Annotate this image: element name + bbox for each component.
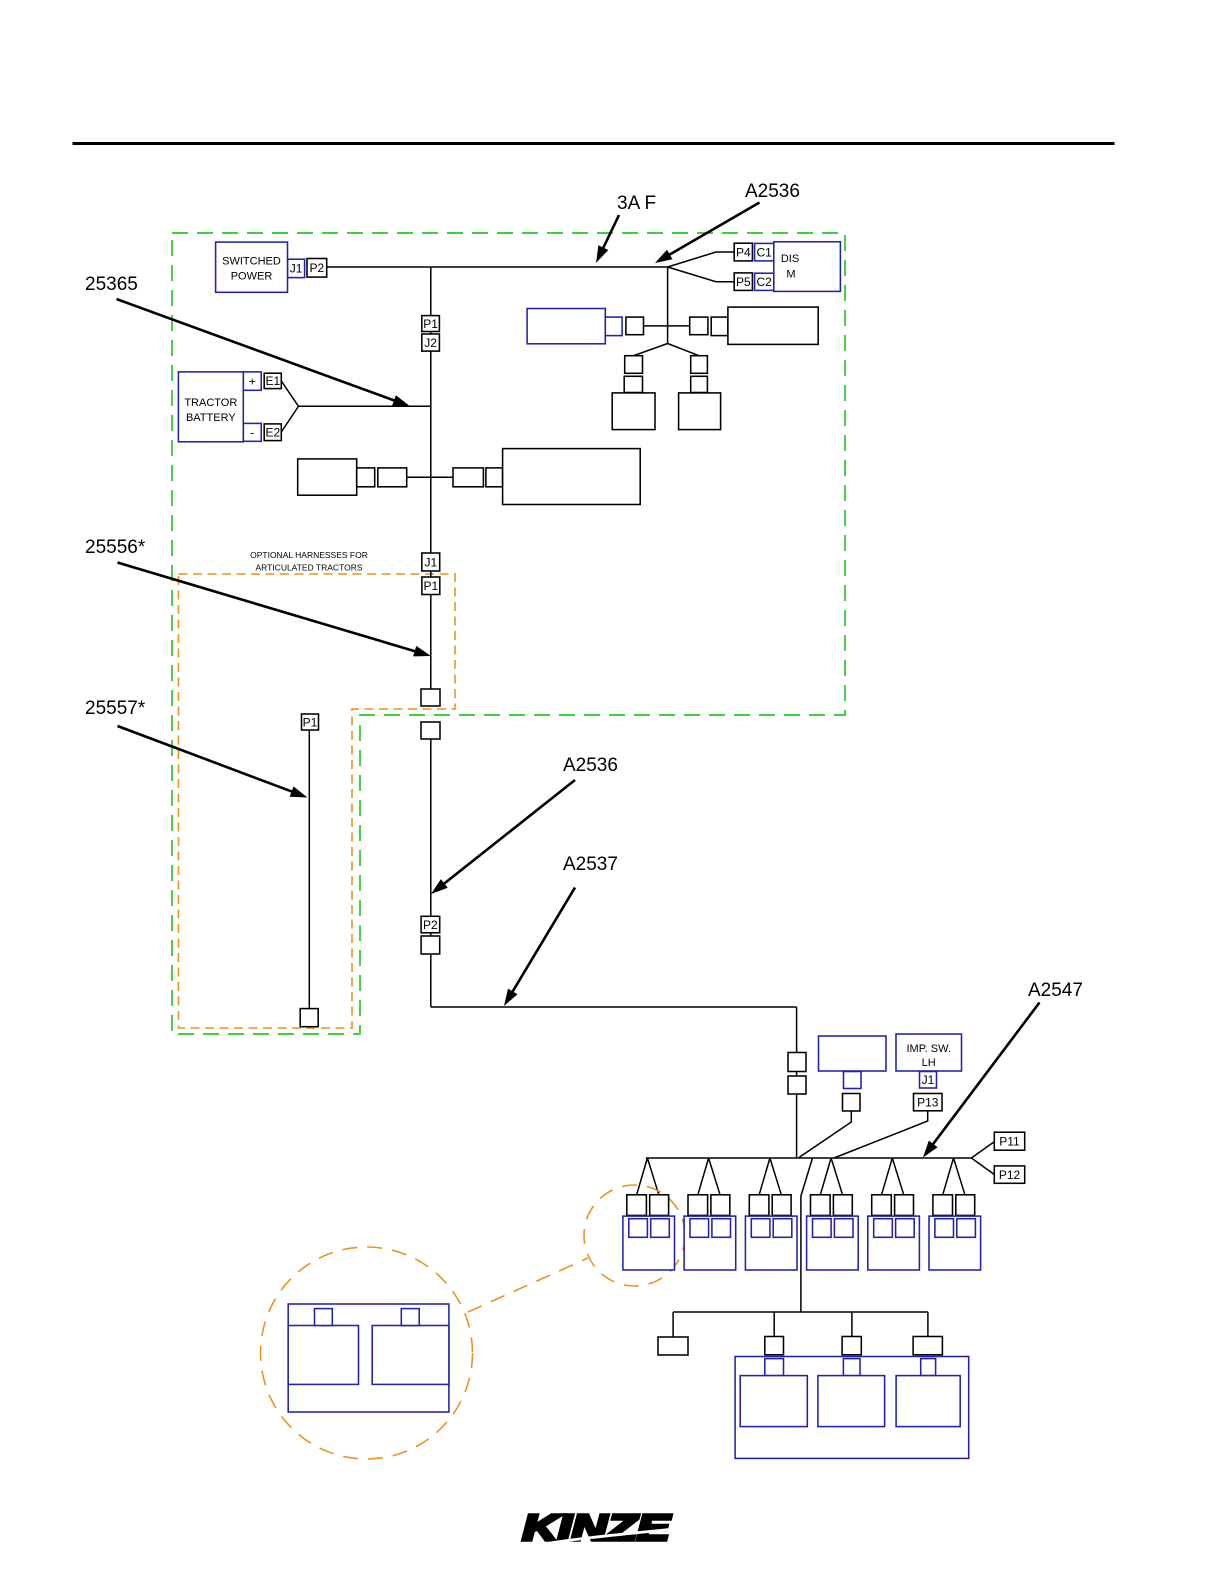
- svg-text:25365: 25365: [85, 274, 138, 295]
- svg-text:P2: P2: [310, 261, 325, 275]
- svg-text:C1: C1: [757, 245, 773, 259]
- svg-text:ARTICULATED TRACTORS: ARTICULATED TRACTORS: [255, 563, 362, 573]
- svg-text:A2536: A2536: [745, 181, 800, 202]
- svg-text:+: +: [249, 374, 256, 388]
- svg-text:3A F: 3A F: [617, 193, 656, 214]
- svg-text:J2: J2: [424, 336, 437, 350]
- svg-text:BATTERY: BATTERY: [186, 412, 236, 424]
- svg-text:P1: P1: [303, 715, 318, 729]
- svg-text:A2537: A2537: [563, 854, 618, 875]
- svg-text:25556*: 25556*: [85, 537, 146, 558]
- svg-text:SWITCHED: SWITCHED: [222, 256, 281, 268]
- svg-text:J1: J1: [290, 262, 303, 276]
- svg-text:TRACTOR: TRACTOR: [184, 397, 237, 409]
- svg-text:P5: P5: [736, 275, 751, 289]
- svg-text:A2536: A2536: [563, 755, 618, 776]
- svg-text:P2: P2: [423, 918, 438, 932]
- svg-text:J1: J1: [424, 555, 437, 569]
- svg-text:P12: P12: [999, 1168, 1021, 1182]
- svg-text:J1: J1: [922, 1073, 935, 1087]
- svg-text:KINZE: KINZE: [523, 1507, 671, 1548]
- svg-text:P13: P13: [917, 1095, 939, 1109]
- svg-text:LH: LH: [922, 1057, 936, 1069]
- svg-text:P11: P11: [999, 1135, 1020, 1149]
- svg-text:M: M: [786, 269, 795, 281]
- svg-text:IMP. SW.: IMP. SW.: [906, 1043, 950, 1055]
- svg-text:P1: P1: [424, 579, 439, 593]
- svg-text:POWER: POWER: [231, 271, 273, 283]
- svg-text:E2: E2: [265, 426, 280, 440]
- svg-text:25557*: 25557*: [85, 698, 146, 719]
- svg-text:-: -: [250, 426, 254, 440]
- svg-text:E1: E1: [265, 374, 280, 388]
- svg-text:A2547: A2547: [1028, 980, 1083, 1001]
- svg-text:OPTIONAL HARNESSES FOR: OPTIONAL HARNESSES FOR: [250, 550, 368, 560]
- svg-text:C2: C2: [757, 275, 773, 289]
- svg-text:DIS: DIS: [781, 253, 799, 265]
- svg-text:P4: P4: [736, 245, 751, 259]
- svg-text:P1: P1: [423, 317, 438, 331]
